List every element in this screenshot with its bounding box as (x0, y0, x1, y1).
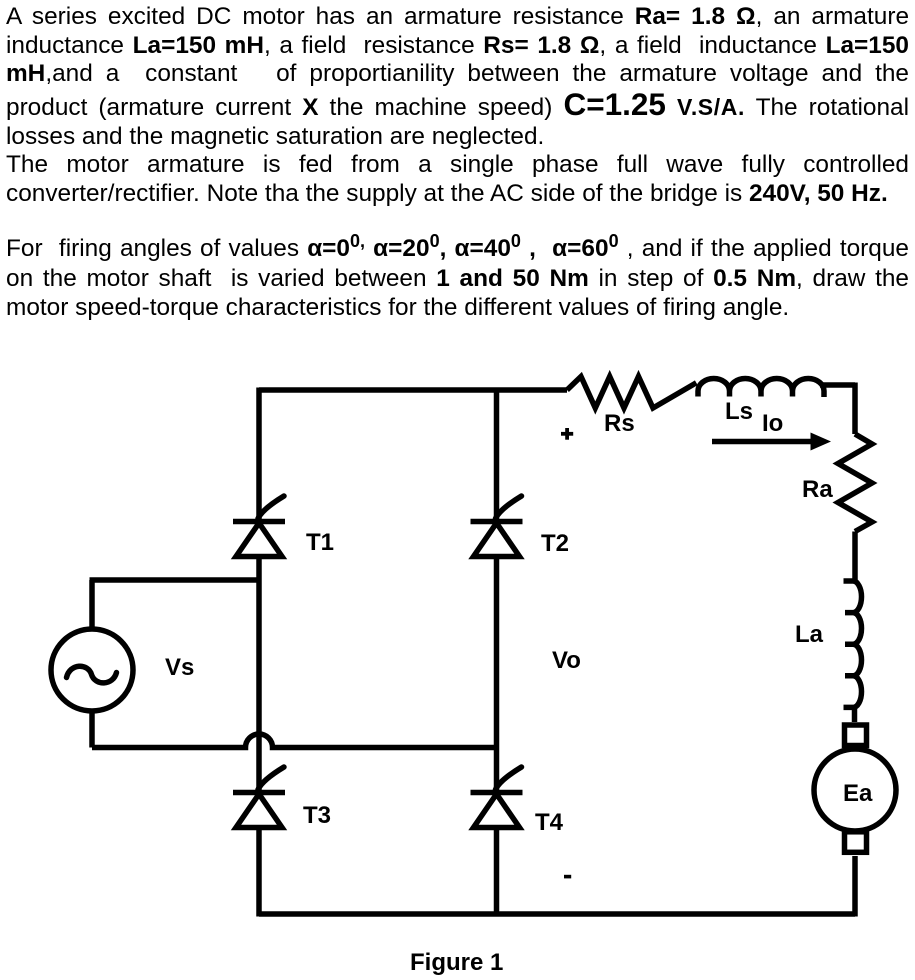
svg-text:Vs: Vs (165, 654, 194, 681)
wire bottom horizontal return (259, 911, 855, 917)
inductor Ls (698, 379, 824, 398)
wire Ra to La (852, 532, 858, 582)
wire top horizontal (bridge + output to Rs) (259, 387, 567, 393)
wire right bridge leg lower (T4 anode to bottom node) (494, 828, 500, 917)
motor Ea brush top (845, 725, 867, 746)
wire right bridge leg middle (T2 anode to T4 cathode) (494, 557, 500, 793)
motor Ea body circle (814, 749, 896, 831)
svg-text:Ls: Ls (725, 398, 753, 425)
svg-text:T4: T4 (535, 809, 564, 836)
svg-text:Figure 1: Figure 1 (410, 949, 503, 976)
thyristor T2 (471, 496, 523, 557)
wire motor to bottom node (852, 856, 858, 917)
svg-text:La: La (795, 621, 824, 648)
wire La to motor (852, 707, 858, 722)
label + polarity (561, 428, 573, 440)
current arrow Io (712, 433, 831, 451)
svg-text:T2: T2 (541, 530, 569, 557)
wire left bridge leg lower (T3 anode to bottom node) (256, 828, 262, 917)
svg-text:T3: T3 (303, 802, 331, 829)
AC source sine symbol (67, 666, 117, 683)
wire source bottom with hop over left leg (92, 711, 497, 748)
svg-text:Io: Io (762, 410, 783, 437)
motor Ea brush bottom (845, 832, 867, 853)
wire source top (Vs to left leg midpoint) (90, 580, 260, 629)
svg-text:Ea: Ea (843, 780, 873, 807)
wire Ls to right top corner (820, 382, 855, 388)
problem statement paragraph 1 (6, 3, 909, 209)
problem statement paragraph 2 (6, 234, 909, 322)
AC source Vs circle (51, 629, 133, 711)
thyristor T1 (233, 496, 285, 557)
wire left bridge leg middle (T1 anode to T3 cathode) (256, 557, 262, 793)
svg-text:Ra: Ra (802, 476, 833, 503)
wire left bridge leg upper (top node to T1 cathode) (256, 388, 262, 522)
wire right bridge leg upper (top node to T2 cathode) (494, 388, 500, 522)
thyristor T3 (233, 767, 285, 828)
svg-text:Vo: Vo (552, 647, 581, 674)
svg-text:Rs: Rs (604, 410, 635, 437)
resistor Ra (838, 434, 872, 532)
wire right branch upper (corner down to Ra) (852, 383, 858, 435)
inductor La (armature coil) (844, 581, 862, 707)
thyristor T4 (471, 767, 523, 828)
svg-text:T1: T1 (306, 529, 334, 556)
label - polarity (564, 875, 571, 879)
resistor Rs (567, 377, 696, 409)
